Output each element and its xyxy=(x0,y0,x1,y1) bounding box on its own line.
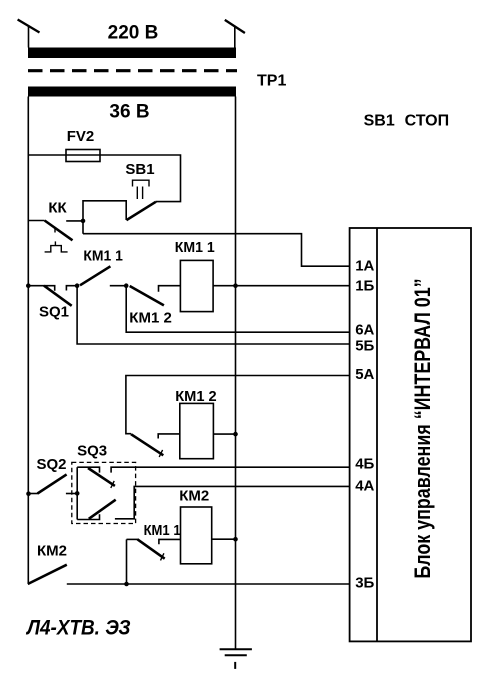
svg-text:КМ2: КМ2 xyxy=(179,488,209,505)
svg-text:1А: 1А xyxy=(355,258,374,275)
svg-text:SQ3: SQ3 xyxy=(77,443,107,460)
svg-text:3Б: 3Б xyxy=(355,575,374,592)
svg-text:Блок управления “ИНТЕРВАЛ 01”: Блок управления “ИНТЕРВАЛ 01” xyxy=(411,278,435,578)
svg-text:5А: 5А xyxy=(355,366,374,383)
svg-text:FV2: FV2 xyxy=(67,128,95,145)
svg-text:КМ1 1: КМ1 1 xyxy=(144,522,181,539)
svg-text:SB1: SB1 xyxy=(364,113,395,130)
svg-text:36 В: 36 В xyxy=(109,102,149,123)
svg-text:SB1: SB1 xyxy=(125,161,154,178)
svg-text:220 В: 220 В xyxy=(108,23,159,44)
svg-text:6А: 6А xyxy=(355,322,374,339)
svg-text:SQ1: SQ1 xyxy=(39,304,69,321)
svg-text:4А: 4А xyxy=(355,478,374,495)
svg-text:КМ1 1: КМ1 1 xyxy=(175,239,215,256)
svg-text:ТР1: ТР1 xyxy=(257,73,286,90)
svg-text:КМ1 1: КМ1 1 xyxy=(83,247,123,264)
svg-text:СТОП: СТОП xyxy=(405,113,449,130)
svg-text:5Б: 5Б xyxy=(355,338,374,355)
svg-text:1Б: 1Б xyxy=(355,278,374,295)
svg-text:SQ2: SQ2 xyxy=(37,456,67,473)
svg-text:4Б: 4Б xyxy=(355,456,374,473)
svg-text:КМ1 2: КМ1 2 xyxy=(175,388,217,405)
svg-text:КМ1 2: КМ1 2 xyxy=(129,310,172,327)
svg-text:КМ2: КМ2 xyxy=(37,543,67,560)
svg-text:КК: КК xyxy=(48,200,67,217)
svg-text:Л4-ХТВ. ЭЗ: Л4-ХТВ. ЭЗ xyxy=(25,617,131,640)
